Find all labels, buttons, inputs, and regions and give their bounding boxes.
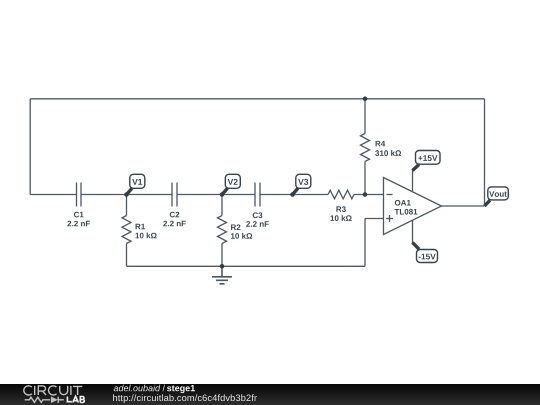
label C3 [253, 212, 263, 218]
node inverting input junction [363, 192, 368, 197]
label R2 value [231, 233, 252, 239]
wire: op-amp output [442, 205, 485, 207]
label R4 value [375, 150, 401, 156]
CircuitLab logo [24, 386, 82, 403]
node feedback top junction [363, 97, 368, 102]
wire: top feedback horizontal [30, 98, 484, 100]
CircuitLab logo diode [51, 397, 58, 404]
capacitor C3 [255, 183, 260, 207]
label TL081 part number [395, 209, 418, 215]
label R4 [376, 141, 386, 147]
wire: right vertical output to top [484, 99, 486, 206]
flag +15V supply [413, 151, 441, 171]
wire: R3 to inverting input junction [354, 194, 384, 196]
resistor R3 [328, 190, 354, 199]
op-amp OA1 body [384, 178, 442, 235]
wire: left vertical feedback [29, 99, 31, 195]
wire: C1 to node V1 to C2 [81, 194, 172, 196]
resistor R1 [122, 195, 131, 267]
label C2 [170, 212, 180, 218]
CircuitLab logo LAB [67, 396, 84, 402]
credit line 2 url [113, 394, 257, 403]
footer bar [0, 384, 540, 405]
wire: non-inverting branch vertical [364, 219, 366, 267]
label C1 [74, 212, 84, 218]
wire: bottom return rail [127, 265, 366, 267]
op-amp non-inverting input marker [386, 215, 393, 222]
resistor R4 feedback [361, 99, 370, 195]
flag node V3 [293, 174, 311, 194]
pin: negative supply pin [412, 221, 414, 243]
capacitor C1 [77, 183, 82, 207]
label R3 value [331, 215, 352, 221]
credit line 1 [114, 385, 161, 392]
flag node V1 [127, 174, 145, 194]
label R2 [231, 224, 240, 230]
capacitor C2 [172, 183, 177, 207]
resistor R2 [218, 195, 227, 267]
label C3 value [246, 221, 269, 227]
wire: non-inverting input [365, 218, 384, 220]
label R1 [136, 224, 145, 230]
node V3 junction [290, 192, 295, 197]
label C2 value [163, 221, 186, 227]
wire: C2 to node V2 to C3 [177, 194, 255, 196]
flag -15V supply [413, 243, 438, 263]
node V2 junction [220, 192, 225, 197]
op-amp inverting input marker [387, 194, 393, 196]
wire: input left to C1 [30, 194, 76, 196]
node ground junction [220, 264, 225, 269]
node V1 junction [124, 192, 129, 197]
wire: C3 to node V3 to R3 [260, 194, 328, 196]
ground symbol [212, 266, 232, 284]
flag node Vout [485, 187, 509, 206]
label OA1 designator [395, 200, 411, 206]
label C1 value [67, 221, 90, 227]
pin: positive supply pin [412, 170, 414, 192]
flag node V2 [222, 174, 240, 194]
label R1 value [136, 233, 157, 239]
label R3 [336, 206, 345, 212]
